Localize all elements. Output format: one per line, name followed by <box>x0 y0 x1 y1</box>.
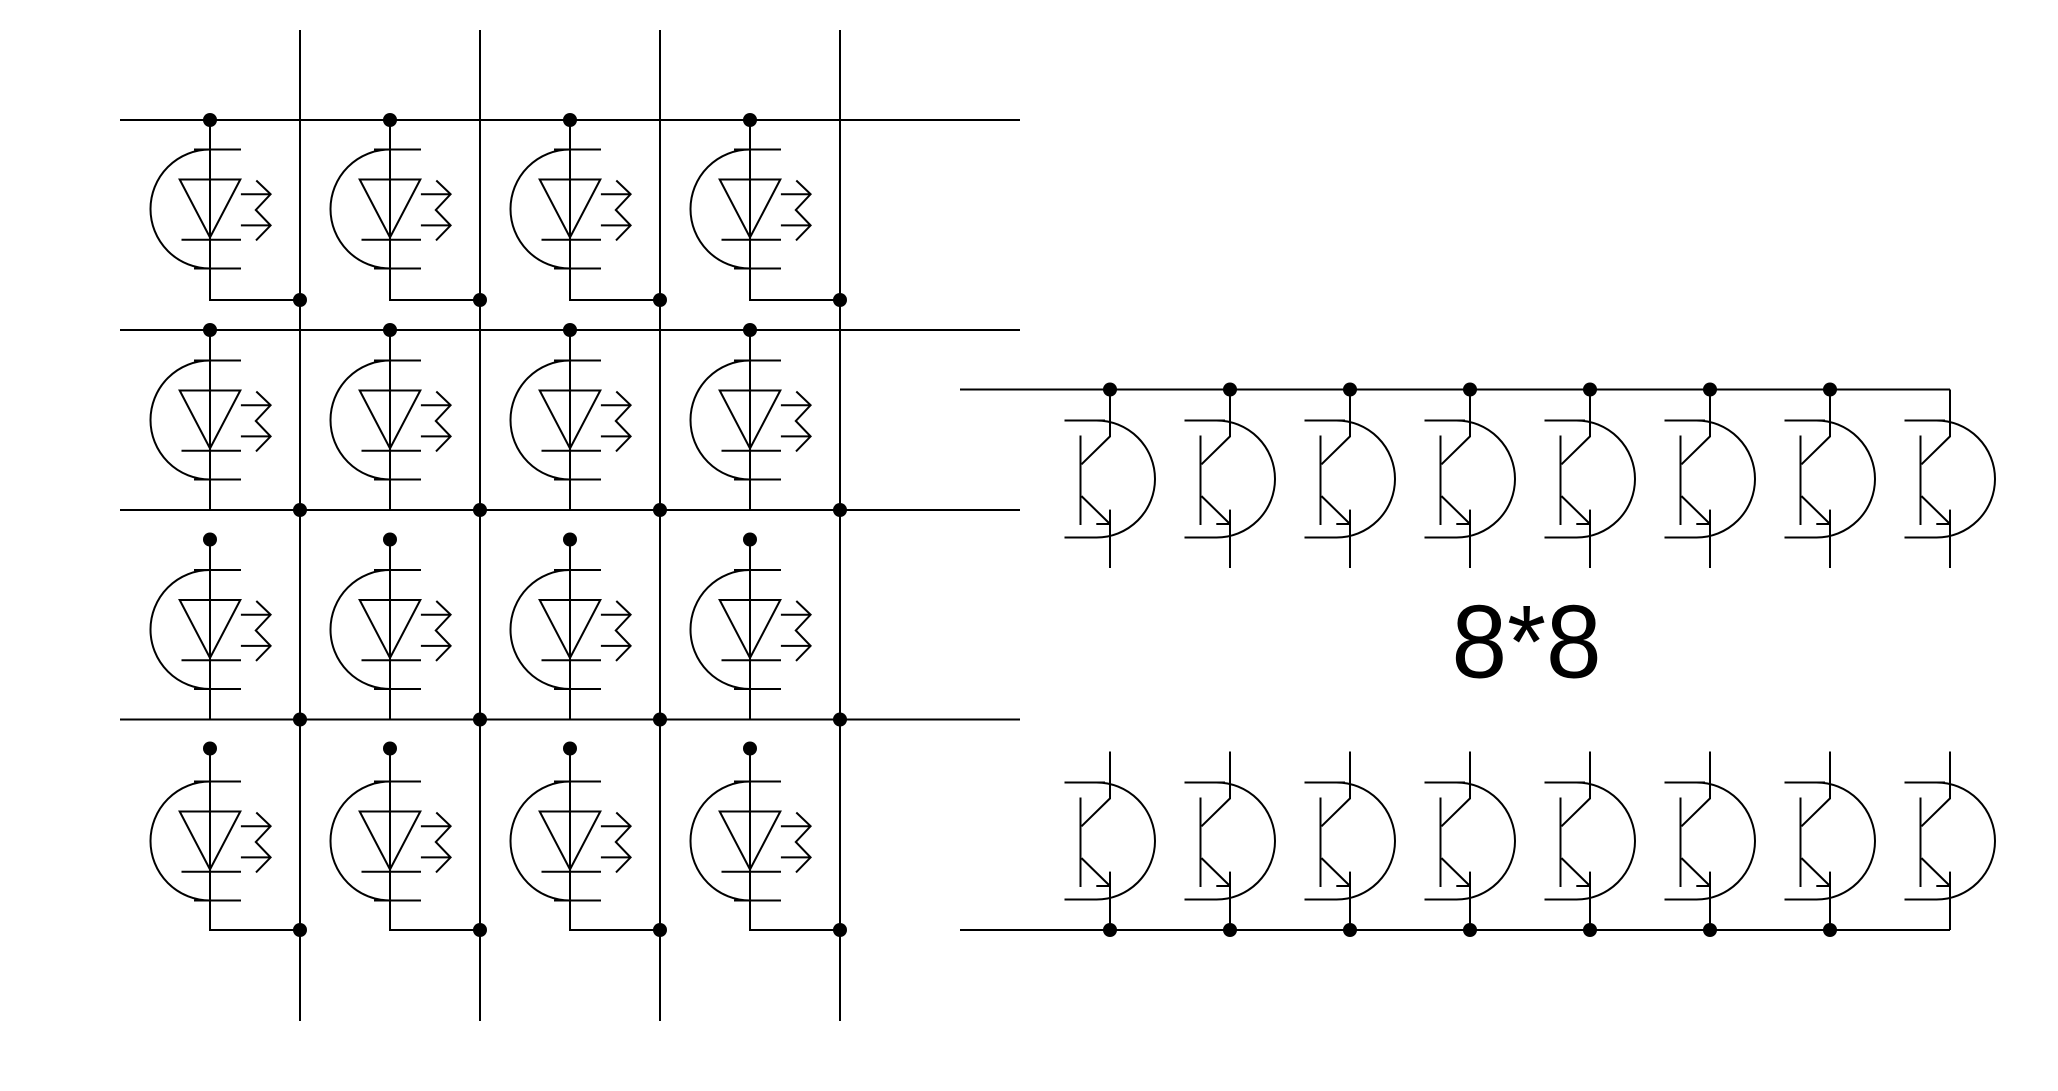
transistor Q7 <box>1785 390 1876 569</box>
junction: cathode of LED D12 on column C2 <box>473 293 487 307</box>
junction: anode node dot of LED D31 <box>203 533 217 547</box>
transistor Q13 <box>1545 752 1636 931</box>
LED D44 <box>691 782 811 901</box>
LED D32 <box>331 570 451 689</box>
wire: anode/cathode wire of LED D12 with corner to column C2 <box>390 120 480 300</box>
wire: row select line R4 <box>120 719 1020 721</box>
junction: anode node dot of LED D42 <box>383 742 397 756</box>
junction: column C1 on row line R4 <box>293 713 307 727</box>
wire: anode/cathode wire of LED D22 down to line R3 <box>389 330 391 510</box>
junction: collector of Q4 on top rail <box>1463 383 1477 397</box>
LED D14 <box>691 150 811 269</box>
transistor Q4 <box>1425 390 1516 569</box>
junction: cathode of LED D41 on column C1 <box>293 923 307 937</box>
junction: column C2 on row line R3 <box>473 503 487 517</box>
transistor Q1 <box>1065 390 1156 569</box>
wire: cathode column line C3 <box>659 30 661 1021</box>
wire: anode/cathode wire of LED D44 with corner to column C4 <box>750 749 840 931</box>
transistor Q15 <box>1785 752 1876 931</box>
wire: anode/cathode wire of LED D43 with corner to column C3 <box>570 749 660 931</box>
junction: emitter of Q10 on bottom rail <box>1223 923 1237 937</box>
junction: collector of Q5 on top rail <box>1583 383 1597 397</box>
transistor Q16 <box>1905 752 1996 931</box>
junction: collector of Q6 on top rail <box>1703 383 1717 397</box>
junction: column C3 on row line R4 <box>653 713 667 727</box>
junction: collector of Q2 on top rail <box>1223 383 1237 397</box>
junction: column C3 on row line R3 <box>653 503 667 517</box>
LED D43 <box>511 782 631 901</box>
wire: row select line R2 <box>120 329 1020 331</box>
junction: anode node dot of LED D34 <box>743 533 757 547</box>
transistor Q14 <box>1665 752 1756 931</box>
junction: row R2 tap of LED D21 <box>203 323 217 337</box>
transistor Q3 <box>1305 390 1396 569</box>
transistor Q8 <box>1905 390 1996 569</box>
transistor Q2 <box>1185 390 1276 569</box>
junction: column C2 on row line R4 <box>473 713 487 727</box>
LED D12 <box>331 150 451 269</box>
junction: anode node dot of LED D32 <box>383 533 397 547</box>
junction: emitter of Q9 on bottom rail <box>1103 923 1117 937</box>
LED D23 <box>511 361 631 480</box>
LED D34 <box>691 570 811 689</box>
transistor Q5 <box>1545 390 1636 569</box>
transistor Q9 <box>1065 752 1156 931</box>
wire: anode/cathode wire of LED D13 with corner to column C3 <box>570 120 660 300</box>
junction: row R2 tap of LED D24 <box>743 323 757 337</box>
wire: cathode column line C4 <box>839 30 841 1021</box>
junction: row R1 tap of LED D14 <box>743 113 757 127</box>
wire: anode/cathode wire of LED D42 with corner to column C2 <box>390 749 480 931</box>
wire: anode/cathode wire of LED D14 with corner to column C4 <box>750 120 840 300</box>
junction: collector of Q7 on top rail <box>1823 383 1837 397</box>
LED D11 <box>151 150 271 269</box>
junction: emitter of Q11 on bottom rail <box>1343 923 1357 937</box>
junction: anode node dot of LED D44 <box>743 742 757 756</box>
LED D24 <box>691 361 811 480</box>
junction: anode node dot of LED D41 <box>203 742 217 756</box>
transistor Q10 <box>1185 752 1276 931</box>
junction: cathode of LED D43 on column C3 <box>653 923 667 937</box>
junction: emitter of Q13 on bottom rail <box>1583 923 1597 937</box>
junction: row R1 tap of LED D12 <box>383 113 397 127</box>
junction: anode node dot of LED D43 <box>563 742 577 756</box>
junction: cathode of LED D42 on column C2 <box>473 923 487 937</box>
wire: anode/cathode wire of LED D32 down to line R4 <box>389 540 391 720</box>
wire: anode/cathode wire of LED D24 down to line R3 <box>749 330 751 510</box>
junction: row R1 tap of LED D11 <box>203 113 217 127</box>
junction: cathode of LED D14 on column C4 <box>833 293 847 307</box>
junction: column C1 on row line R3 <box>293 503 307 517</box>
LED D41 <box>151 782 271 901</box>
junction: column C4 on row line R4 <box>833 713 847 727</box>
junction: collector of Q1 on top rail <box>1103 383 1117 397</box>
junction: row R2 tap of LED D22 <box>383 323 397 337</box>
transistor Q12 <box>1425 752 1516 931</box>
LED D42 <box>331 782 451 901</box>
wire: anode/cathode wire of LED D11 with corner to column C1 <box>210 120 300 300</box>
wire: row select line R1 <box>120 119 1020 121</box>
transistor Q6 <box>1665 390 1756 569</box>
wire: anode/cathode wire of LED D23 down to line R3 <box>569 330 571 510</box>
LED D22 <box>331 361 451 480</box>
junction: cathode of LED D11 on column C1 <box>293 293 307 307</box>
LED D21 <box>151 361 271 480</box>
junction: emitter of Q14 on bottom rail <box>1703 923 1717 937</box>
junction: anode node dot of LED D33 <box>563 533 577 547</box>
wire: top collector rail <box>960 389 1950 391</box>
transistor Q11 <box>1305 752 1396 931</box>
LED D31 <box>151 570 271 689</box>
junction: cathode of LED D44 on column C4 <box>833 923 847 937</box>
wire: row select line R3 <box>120 509 1020 511</box>
junction: row R1 tap of LED D13 <box>563 113 577 127</box>
wire: anode/cathode wire of LED D34 down to line R4 <box>749 540 751 720</box>
junction: emitter of Q12 on bottom rail <box>1463 923 1477 937</box>
wire: anode/cathode wire of LED D21 down to line R3 <box>209 330 211 510</box>
wire: cathode column line C2 <box>479 30 481 1021</box>
LED D13 <box>511 150 631 269</box>
wire: anode/cathode wire of LED D31 down to line R4 <box>209 540 211 720</box>
junction: emitter of Q15 on bottom rail <box>1823 923 1837 937</box>
wire: anode/cathode wire of LED D33 down to line R4 <box>569 540 571 720</box>
wire: bottom emitter rail <box>960 929 1950 931</box>
junction: row R2 tap of LED D23 <box>563 323 577 337</box>
junction: column C4 on row line R3 <box>833 503 847 517</box>
wire: cathode column line C1 <box>299 30 301 1021</box>
LED D33 <box>511 570 631 689</box>
wire: anode/cathode wire of LED D41 with corner to column C1 <box>210 749 300 931</box>
junction: cathode of LED D13 on column C3 <box>653 293 667 307</box>
junction: collector of Q3 on top rail <box>1343 383 1357 397</box>
svg-text:8*8: 8*8 <box>1452 584 1602 700</box>
